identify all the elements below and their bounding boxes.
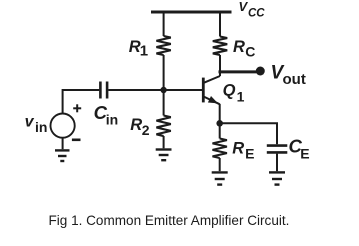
svg-text:R: R xyxy=(233,38,245,56)
transistor Q1 xyxy=(203,76,220,107)
svg-text:C: C xyxy=(245,44,255,60)
svg-text:in: in xyxy=(106,112,118,128)
ground below RE xyxy=(212,172,228,184)
wire RC to collector xyxy=(219,55,221,76)
capacitor Cin xyxy=(100,82,107,99)
wire Cin to base xyxy=(108,89,202,91)
svg-text:V: V xyxy=(239,0,249,14)
wire junction to RE xyxy=(219,123,221,138)
wire vin to ground xyxy=(62,138,64,150)
ground below CE xyxy=(269,172,285,184)
wire R2 to ground xyxy=(163,136,165,148)
node base junction dot xyxy=(160,87,166,93)
svg-text:E: E xyxy=(300,146,309,162)
label R2 xyxy=(130,116,150,138)
label VCC xyxy=(239,0,266,19)
source vin circle xyxy=(51,114,75,138)
svg-text:1: 1 xyxy=(237,89,245,105)
wire R1 to base node xyxy=(163,55,165,116)
label Cin xyxy=(94,102,119,128)
wire emitter junction to CE xyxy=(220,123,277,144)
resistor RE xyxy=(213,139,227,158)
wire VCC supply rail xyxy=(151,11,232,14)
ground below vin xyxy=(55,150,70,161)
svg-text:Q: Q xyxy=(223,82,236,100)
label CE xyxy=(289,136,310,162)
svg-text:v: v xyxy=(25,113,35,130)
svg-text:CC: CC xyxy=(248,7,265,19)
svg-text:E: E xyxy=(245,146,254,162)
plus sign of source xyxy=(73,104,81,112)
wire RE to ground xyxy=(219,158,221,171)
caption Fig 1 xyxy=(49,213,290,228)
svg-text:2: 2 xyxy=(142,122,150,138)
wire vin to Cin xyxy=(63,89,100,91)
svg-text:1: 1 xyxy=(140,42,148,59)
minus sign of source xyxy=(72,139,81,142)
wire rail to R1 xyxy=(163,12,165,36)
label Vout xyxy=(271,62,306,88)
node Vout terminal dot xyxy=(256,67,265,76)
capacitor CE xyxy=(267,146,288,153)
wire CE to ground xyxy=(276,154,278,172)
svg-text:Fig 1. Common Emitter Amplifie: Fig 1. Common Emitter Amplifier Circuit. xyxy=(49,213,290,228)
wire collector to Vout terminal xyxy=(219,70,258,73)
label vin xyxy=(25,113,48,135)
label RC xyxy=(233,38,255,60)
svg-text:R: R xyxy=(130,116,142,134)
label RE xyxy=(232,139,254,161)
resistor RC xyxy=(213,37,227,55)
label R1 xyxy=(129,38,148,60)
wire emitter down xyxy=(219,104,221,124)
svg-text:out: out xyxy=(283,71,306,88)
resistor R1 xyxy=(156,36,170,55)
node emitter junction dot xyxy=(216,120,223,127)
wire rail to RC xyxy=(219,12,221,37)
wire vin source up to base wire xyxy=(62,89,64,114)
label Q1 xyxy=(223,82,245,105)
resistor R2 xyxy=(156,116,170,137)
svg-text:in: in xyxy=(35,119,47,135)
ground below R2 xyxy=(156,150,172,161)
svg-text:R: R xyxy=(232,139,244,157)
